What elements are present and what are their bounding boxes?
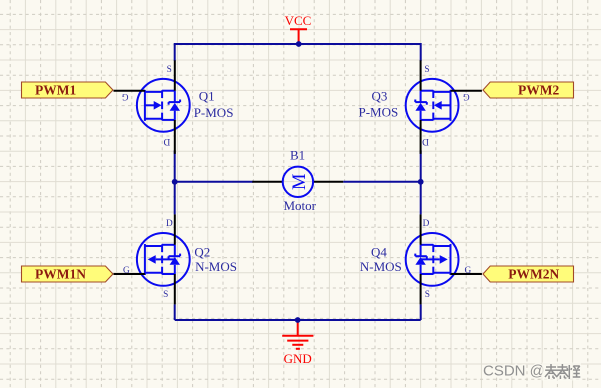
wire right mid to Q4 [420,182,422,215]
svg-text:PWM1: PWM1 [35,82,76,97]
wire mid left [175,181,254,183]
wire left Q2S down [174,304,176,320]
svg-text:G: G [463,91,470,101]
junction VCC-toprail [296,41,302,47]
svg-text:GND: GND [284,351,312,366]
wire top rail [175,43,421,45]
transistor Q4 N-MOS [406,214,482,304]
svg-text:G: G [123,266,130,276]
port PWM1 [22,82,113,98]
svg-text:P-MOS: P-MOS [194,105,234,120]
svg-text:S: S [167,65,172,75]
junction left-mid [172,179,178,185]
wire bottom rail [175,319,421,321]
transistor Q2 N-MOS [114,214,190,304]
watermark CSDN [483,363,545,380]
svg-text:G: G [121,91,128,101]
junction GND-bottomrail [295,317,301,323]
svg-text:Q2: Q2 [194,245,210,260]
svg-text:D: D [163,136,170,146]
wire right Q3D to mid [420,150,422,181]
svg-text:Q4: Q4 [371,245,387,260]
svg-text:S: S [163,290,168,300]
svg-text:CSDN @: CSDN @ [483,363,545,380]
svg-text:VCC: VCC [285,13,312,28]
wire left mid to Q2 [174,182,176,215]
port PWM2N [483,266,574,282]
ground GND [282,320,313,366]
motor B1 [252,167,343,197]
svg-text:D: D [166,219,173,229]
svg-text:D: D [423,219,430,229]
wire right upper [420,43,422,61]
svg-text:P-MOS: P-MOS [359,105,399,120]
svg-text:Motor: Motor [284,198,317,213]
svg-text:Q1: Q1 [199,89,215,104]
svg-text:N-MOS: N-MOS [195,259,237,274]
transistor Q1 P-MOS [114,60,190,154]
wire mid right [343,181,421,183]
svg-text:D: D [422,136,429,146]
transistor Q3 P-MOS [406,60,482,154]
port PWM2 [483,82,574,98]
port PWM1N [22,266,113,282]
wire left Q1D to mid [174,150,176,181]
power symbol VCC [285,13,312,44]
svg-text:Q3: Q3 [372,89,388,104]
svg-text:N-MOS: N-MOS [360,259,402,274]
wire left upper [174,43,176,61]
svg-text:PWM2: PWM2 [518,82,559,97]
svg-text:S: S [425,290,430,300]
svg-text:PWM2N: PWM2N [508,266,559,281]
junction right-mid [418,179,424,185]
svg-text:S: S [424,65,429,75]
svg-text:M: M [290,174,310,190]
svg-text:G: G [465,266,472,276]
wire right Q4S down [420,304,422,320]
svg-text:PWM1N: PWM1N [35,266,86,281]
svg-text:B1: B1 [290,148,305,163]
